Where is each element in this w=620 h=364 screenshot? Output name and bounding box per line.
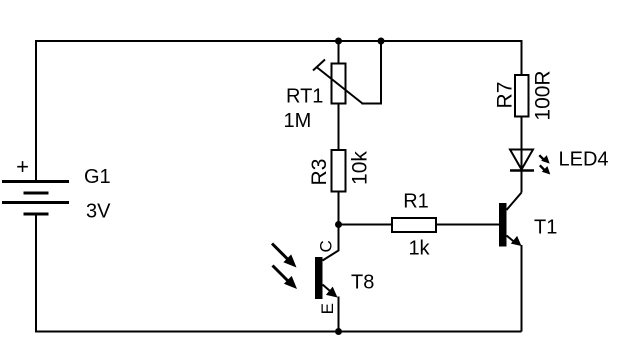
- wire top rail: [36, 40, 522, 42]
- wire RT1 to R3: [338, 104, 340, 151]
- svg-text:R1: R1: [403, 191, 429, 213]
- svg-text:1k: 1k: [408, 238, 430, 260]
- svg-text:LED4: LED4: [559, 149, 609, 171]
- wire left rail lower (battery - to bottom): [35, 215, 37, 333]
- phototransistor T8: [315, 225, 339, 332]
- svg-text:T8: T8: [351, 272, 374, 294]
- wire R7 through LED4 to T1 collector: [521, 117, 523, 193]
- svg-text:T1: T1: [534, 217, 557, 239]
- wire left rail upper (to battery +): [35, 40, 37, 181]
- resistor R1: [392, 218, 436, 232]
- trimmer RT1 wiper tick: [313, 60, 325, 71]
- T8 light arrow 2: [273, 266, 298, 290]
- transistor T1 (NPN): [499, 193, 522, 247]
- svg-text:10k: 10k: [349, 151, 372, 185]
- wire node A to R1: [339, 224, 393, 226]
- wire R1 to T1 base: [436, 224, 499, 226]
- battery G1: [2, 182, 69, 215]
- svg-text:1M: 1M: [284, 110, 312, 132]
- svg-text:E: E: [318, 303, 337, 314]
- LED LED4 diode triangle: [510, 150, 533, 170]
- svg-text:+: +: [16, 154, 29, 179]
- node A junction dot (R3/R1/T8): [335, 221, 342, 228]
- trimmer RT1 body: [332, 64, 346, 104]
- trimmer RT1 wiper arrow: [317, 67, 363, 104]
- svg-text:R7: R7: [494, 82, 517, 109]
- LED4 emission arrow 2: [540, 165, 551, 174]
- resistor R7: [515, 75, 529, 117]
- wire stub top rail to RT1: [338, 41, 340, 64]
- wire T1 emitter to bottom rail: [521, 245, 523, 332]
- svg-text:C: C: [317, 240, 336, 252]
- resistor R3: [332, 150, 346, 192]
- T8 light arrow 1: [272, 244, 297, 268]
- svg-text:RT1: RT1: [286, 86, 323, 108]
- svg-text:G1: G1: [84, 166, 111, 188]
- svg-text:R3: R3: [308, 159, 331, 186]
- svg-text:100R: 100R: [532, 70, 555, 120]
- node dot bottom rail T8 emitter: [335, 328, 342, 335]
- node dot top rail wiper: [378, 38, 385, 45]
- wire R3 to node A: [338, 192, 340, 226]
- svg-text:3V: 3V: [86, 201, 111, 223]
- wire RT1 wiper to top rail: [362, 41, 382, 104]
- LED LED4 cathode bar: [510, 169, 534, 172]
- node dot top rail RT1: [335, 38, 342, 45]
- LED4 emission arrow 1: [539, 155, 549, 163]
- wire bottom rail: [35, 331, 522, 333]
- wire right rail upper (top to R7): [521, 40, 523, 75]
